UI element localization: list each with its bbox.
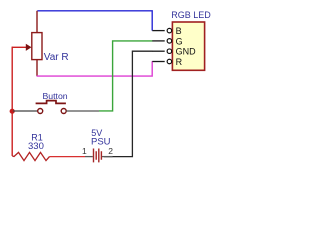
svg-text:1: 1 xyxy=(82,146,87,156)
junction red node xyxy=(10,109,15,114)
svg-text:G: G xyxy=(176,36,183,46)
svg-text:Button: Button xyxy=(43,91,68,101)
svg-text:R: R xyxy=(176,57,183,67)
pin G circle xyxy=(167,39,172,44)
pin R circle xyxy=(167,59,172,64)
button Button actuator bar xyxy=(36,101,66,104)
wire Var R bottom lead xyxy=(36,60,38,77)
wire green net G xyxy=(99,41,153,111)
svg-text:RGB LED: RGB LED xyxy=(171,10,211,20)
svg-text:PSU: PSU xyxy=(91,137,111,148)
svg-text:B: B xyxy=(176,26,182,36)
wire red wiper xyxy=(12,46,27,48)
battery PSU plates xyxy=(94,149,102,163)
Var R wiper arrowhead xyxy=(26,44,32,51)
wire red resistor to battery xyxy=(50,156,86,158)
pin G stub xyxy=(152,40,164,42)
wire black net GND xyxy=(104,51,153,156)
svg-text:Var R: Var R xyxy=(44,52,69,63)
battery PSU pin1 lead xyxy=(85,156,93,158)
svg-text:330: 330 xyxy=(28,141,44,152)
button Button terminal 2 circle xyxy=(61,109,66,114)
pin GND circle xyxy=(167,49,172,54)
wire gray button left xyxy=(13,110,38,112)
svg-text:GND: GND xyxy=(176,47,197,57)
potentiometer Var R body xyxy=(32,33,42,60)
pin R stub xyxy=(152,61,164,63)
resistor R1 zigzag xyxy=(12,152,49,160)
pin B stub xyxy=(152,30,164,32)
wire blue net B xyxy=(37,11,152,31)
wire Var R top lead xyxy=(36,11,38,33)
IC RGB LED body xyxy=(172,22,204,70)
button Button terminal 1 circle xyxy=(38,109,43,114)
button right stub gray xyxy=(66,110,99,112)
pin GND stub xyxy=(152,50,164,52)
pin B circle xyxy=(167,28,172,32)
wire magenta net R xyxy=(37,61,153,76)
wire red vertical xyxy=(11,47,13,156)
battery PSU pin2 lead xyxy=(102,156,113,158)
